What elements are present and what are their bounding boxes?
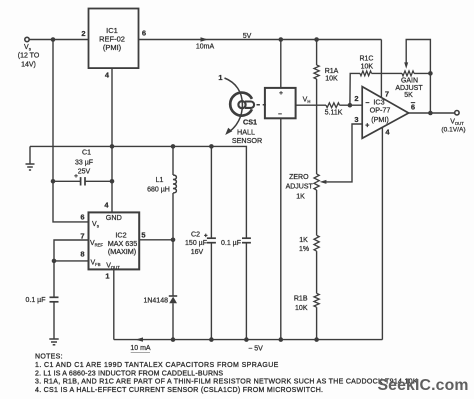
svg-text:+: +: [365, 122, 369, 129]
diode 1N4148: [143, 240, 177, 340]
svg-text:C2: C2: [191, 232, 200, 239]
label CS1 HALL SENSOR: [232, 118, 262, 145]
wire IC2 pin7: [54, 240, 89, 261]
node C1 right junction: [110, 179, 115, 184]
wire IC2 pin8: [54, 260, 89, 262]
svg-text:R1A: R1A: [325, 68, 339, 75]
svg-text:6: 6: [411, 103, 415, 112]
IC2 MAX 635 (MAXIM): [89, 212, 140, 270]
resistor R1A 10K: [314, 40, 339, 83]
svg-text:10K: 10K: [361, 63, 374, 70]
wire IC1 pin 4 to IC2 pin 4 (GND line): [111, 68, 113, 212]
resistor R1C 10K: [359, 56, 373, 76]
pin 6 of IC3: [411, 103, 415, 112]
wire chain mid1: [316, 190, 318, 235]
wire op-amp output: [409, 112, 455, 114]
svg-text:1N4148: 1N4148: [143, 297, 168, 304]
svg-text:1: 1: [218, 73, 222, 82]
hall sensor box CS1: [265, 88, 296, 118]
svg-text:10K: 10K: [325, 75, 338, 82]
wire dashed hall link: [257, 104, 267, 106]
resistor 1K 1%: [299, 235, 319, 253]
capacitor 0.1uF middle: [221, 238, 251, 339]
svg-text:GND: GND: [106, 213, 122, 222]
svg-text:(PMI): (PMI): [103, 43, 122, 52]
node pot-output junction: [428, 71, 433, 76]
svg-text:C1: C1: [82, 150, 91, 157]
wire R1C to gain pot: [372, 72, 403, 74]
node hall -5V junction: [279, 337, 284, 342]
node diode -5V junction: [171, 337, 176, 342]
svg-text:0.1 µF: 0.1 µF: [221, 240, 241, 247]
svg-text:2: 2: [354, 94, 358, 103]
svg-text:ADJUST: ADJUST: [286, 184, 314, 191]
svg-text:7: 7: [385, 90, 389, 99]
node chain -5V junction: [314, 337, 319, 342]
svg-text:NOTES:: NOTES:: [35, 354, 63, 361]
svg-text:1: 1: [105, 272, 109, 281]
svg-text:1K: 1K: [299, 237, 308, 244]
wire pin 7 to 5V: [380, 40, 382, 98]
svg-text:2: 2: [81, 29, 85, 38]
wire IC2 pin5 to L1/diode node: [139, 239, 173, 241]
node C1 left junction: [51, 179, 56, 184]
svg-text:(12 TO: (12 TO: [18, 53, 40, 60]
node L1 top junction: [171, 144, 176, 149]
svg-text:(MAXIM): (MAXIM): [108, 247, 136, 256]
svg-text:150 µF: 150 µF: [185, 240, 207, 247]
label Vs (12 TO 14V): [18, 44, 40, 69]
toroid core CS1: [230, 93, 254, 116]
svg-text:OP-77: OP-77: [370, 105, 391, 114]
svg-text:SeekIC.com: SeekIC.com: [378, 377, 469, 394]
svg-text:14V): 14V): [21, 62, 36, 69]
wire VH output: [296, 104, 326, 106]
node pin7/pin8 junction: [52, 259, 57, 264]
terminal Vout: [455, 111, 459, 115]
capacitor C2 150uF 16V: [185, 146, 216, 339]
resistor 5.11K: [325, 103, 343, 117]
wire zero-adjust wiper: [320, 124, 363, 184]
svg-text:6: 6: [142, 29, 146, 38]
svg-text:−: −: [278, 111, 282, 118]
svg-text:33 µF: 33 µF: [75, 160, 93, 167]
svg-text:5V: 5V: [243, 33, 252, 40]
node GND rail / IC1 pin4 junction: [110, 144, 115, 149]
svg-text:10 mA: 10 mA: [130, 345, 151, 352]
svg-text:ZERO: ZERO: [289, 174, 309, 181]
svg-text:6: 6: [80, 213, 84, 222]
svg-text:+: +: [74, 173, 78, 180]
svg-text:R1C: R1C: [359, 56, 373, 63]
wire Vs to IC1 pin 2: [29, 39, 88, 41]
svg-text:0.1 µF: 0.1 µF: [26, 297, 46, 304]
svg-text:2. L1 IS A 6860-23 INDUCTOR FR: 2. L1 IS A 6860-23 INDUCTOR FROM CADDELL…: [35, 370, 223, 377]
wire IC2 pin1 to -5V rail: [113, 269, 115, 339]
svg-text:+: +: [279, 90, 283, 97]
svg-text:−: −: [365, 100, 369, 107]
ground symbol left: [26, 146, 35, 170]
label 10mA with arrow: [196, 37, 215, 50]
wire 5V rail: [139, 39, 382, 41]
wire R1A to zero-adjust chain: [316, 79, 318, 174]
node LX junction: [171, 238, 176, 243]
svg-text:1. C1 AND C1 ARE 199D TANTALEX: 1. C1 AND C1 ARE 199D TANTALEX CAPACITOR…: [35, 362, 279, 369]
label Vout (0.1V/A): [441, 118, 465, 133]
wire hall minus to -5V rail: [280, 118, 282, 339]
wire Vs vertical branch: [52, 40, 54, 182]
IC1 REF-02 (PMI): [89, 9, 139, 69]
terminal Vs input: [25, 37, 29, 41]
svg-text:10mA: 10mA: [196, 44, 215, 51]
svg-text:8: 8: [80, 250, 84, 259]
svg-text:5: 5: [141, 231, 145, 240]
svg-text:3. R1A, R1B, AND R1C ARE PART: 3. R1A, R1B, AND R1C ARE PART OF A THIN-…: [35, 379, 418, 386]
svg-text:(0.1V/A): (0.1V/A): [441, 127, 465, 134]
svg-text:4. CS1 IS A HALL-EFFECT CURREN: 4. CS1 IS A HALL-EFFECT CURRENT SENSOR (…: [35, 387, 323, 394]
svg-text:5.11K: 5.11K: [325, 109, 343, 116]
svg-text:5K: 5K: [404, 92, 413, 99]
svg-text:+: +: [204, 233, 208, 240]
node C2 -5V junction: [209, 337, 214, 342]
label 10 mA arrow: [130, 337, 151, 352]
wire 5V to hall plus: [280, 40, 282, 88]
wire feedback from inverting node: [350, 73, 360, 105]
svg-text:3: 3: [354, 115, 358, 124]
wire pin 4 to -5V: [381, 128, 383, 340]
notes text block: [35, 354, 418, 394]
capacitor C1 33uF 25V: [53, 150, 112, 186]
svg-text:7: 7: [80, 232, 84, 241]
wire pot to output branch: [414, 72, 430, 74]
wire to op-amp pin 2: [340, 104, 363, 106]
svg-text:− 5V: − 5V: [248, 345, 263, 352]
svg-text:1K: 1K: [296, 194, 305, 201]
wire gain wiper loop: [404, 40, 430, 114]
wire current conductor 1: [218, 73, 242, 135]
svg-text:ADJUST: ADJUST: [395, 85, 423, 92]
node output junction: [428, 111, 433, 116]
op-amp IC3 OP-77 (PMI): [362, 87, 408, 139]
svg-text:(PMI): (PMI): [371, 115, 389, 124]
potentiometer ZERO ADJUST 1K: [286, 174, 320, 201]
potentiometer GAIN ADJUST 5K: [395, 71, 423, 99]
svg-text:GAIN: GAIN: [401, 78, 418, 85]
wire -5V rail: [114, 339, 383, 341]
wire ground rail: [30, 146, 246, 238]
node 5V-R1A junction: [314, 37, 319, 42]
svg-text:1%: 1%: [299, 246, 309, 253]
ground symbol bottom-left: [49, 302, 58, 345]
wire chain mid2: [316, 251, 318, 293]
inductor L1 680uH: [147, 146, 176, 239]
wire chain to -5V: [316, 307, 318, 339]
node inverting input junction: [348, 103, 353, 108]
svg-text:16V: 16V: [191, 249, 204, 256]
capacitor 0.1uF left: [26, 261, 59, 304]
svg-text:25V: 25V: [78, 168, 91, 175]
wire to IC2 pin 6: [53, 181, 89, 222]
svg-text:R1B: R1B: [294, 296, 308, 303]
node 5V-hall junction: [279, 37, 284, 42]
svg-text:680 µH: 680 µH: [147, 187, 170, 194]
svg-text:SENSOR: SENSOR: [232, 136, 262, 145]
node 0.1uF -5V junction: [244, 337, 249, 342]
svg-text:10K: 10K: [295, 305, 308, 312]
node C2 top junction: [209, 144, 214, 149]
svg-text:CS1: CS1: [243, 118, 257, 127]
svg-text:L1: L1: [156, 177, 164, 184]
node Vs junction: [51, 37, 56, 42]
resistor R1B 10K: [294, 293, 319, 311]
